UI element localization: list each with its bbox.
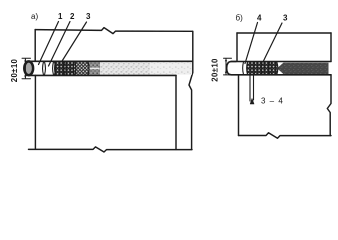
rod dark segment xyxy=(87,62,100,75)
right rod dark band xyxy=(277,63,329,75)
right rod bottom outline xyxy=(231,74,331,76)
right plate right edge lower with break jog xyxy=(327,75,331,136)
right rod arc at 243 xyxy=(242,62,245,74)
right plate top edge xyxy=(237,32,331,34)
label б) xyxy=(236,14,244,23)
svg-text:20±10: 20±10 xyxy=(10,58,19,82)
dimension text 20±10 left xyxy=(10,58,19,82)
right sleeve divider at 254 xyxy=(253,62,256,74)
leader line 1 xyxy=(39,22,59,65)
rod segment arc at 50 xyxy=(53,62,56,75)
callout label 4 xyxy=(257,14,262,23)
rod speckled body xyxy=(100,62,150,75)
svg-text:2: 2 xyxy=(70,12,75,21)
svg-text:20±10: 20±10 xyxy=(210,58,219,82)
callout label 3 xyxy=(86,12,91,21)
svg-text:3 – 4: 3 – 4 xyxy=(261,97,284,106)
plate left edge lower xyxy=(34,76,36,150)
right rod tip rounded xyxy=(227,62,236,75)
rod speckled body light xyxy=(150,62,192,75)
svg-text:1: 1 xyxy=(58,12,63,21)
right sleeve start arc xyxy=(246,62,249,74)
gap line left xyxy=(249,75,251,101)
right sleeve end arc xyxy=(277,62,278,74)
right plate bottom edge with break mark xyxy=(239,133,332,138)
gap arrow xyxy=(250,99,254,105)
weld sleeve second hatched section xyxy=(74,62,89,75)
right sleeve divider at 269 xyxy=(268,62,271,74)
plate top edge with break mark xyxy=(35,28,192,34)
svg-text:a): a) xyxy=(31,12,38,21)
right sleeve divider at 262 xyxy=(260,62,263,74)
callout label 2 xyxy=(70,12,75,21)
gap dimension text 3-4 xyxy=(261,97,284,106)
plate left edge upper xyxy=(34,30,36,62)
rod top outline xyxy=(30,60,193,62)
label a) xyxy=(31,12,38,21)
rod tip (dark ring) xyxy=(24,61,33,75)
dimension bracket right xyxy=(224,58,232,75)
sleeve divider arc at 74 xyxy=(73,62,76,75)
svg-text:3: 3 xyxy=(283,14,288,23)
leader line 3 right xyxy=(262,23,283,65)
plate bottom edge with break mark xyxy=(29,147,193,152)
right plate left edge lower xyxy=(238,75,240,136)
plate right edge with break jog xyxy=(189,31,193,149)
right weld sleeve hatched section xyxy=(247,62,277,75)
right rod top outline xyxy=(231,61,331,63)
leader line 4 xyxy=(245,23,258,64)
sleeve end arc at 88 xyxy=(88,62,89,75)
gap line right xyxy=(253,75,255,100)
rod segment arc at 40 xyxy=(43,62,46,75)
svg-text:3: 3 xyxy=(86,12,91,21)
sleeve divider arc at 64 xyxy=(63,62,66,75)
right plate right edge upper xyxy=(330,33,332,61)
dimension text 20±10 right xyxy=(210,58,219,82)
lower plate right edge xyxy=(175,76,177,150)
leader line 3 xyxy=(58,22,87,68)
leader line 2 xyxy=(49,22,71,67)
weld sleeve hatched section xyxy=(55,62,74,75)
sleeve end arc at 55 xyxy=(54,62,57,75)
svg-text:4: 4 xyxy=(257,14,262,23)
callout label 1 xyxy=(58,12,63,21)
callout label 3 right xyxy=(283,14,288,23)
dimension bracket left xyxy=(22,58,31,79)
rod bottom outline xyxy=(30,74,177,76)
svg-text:б): б) xyxy=(236,14,244,23)
right plate left edge upper xyxy=(236,33,238,61)
